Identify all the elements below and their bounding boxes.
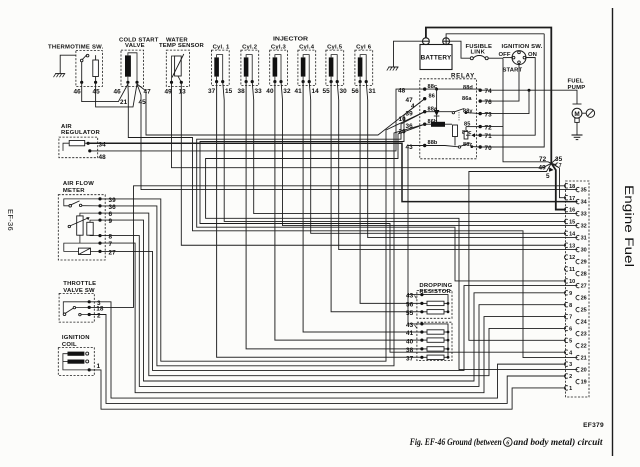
svg-text:2: 2 [569, 374, 572, 380]
svg-text:55: 55 [323, 88, 331, 95]
svg-text:28: 28 [581, 272, 587, 278]
svg-text:49: 49 [165, 88, 173, 95]
svg-text:AIR FLOW: AIR FLOW [63, 181, 94, 187]
svg-text:41: 41 [295, 88, 303, 95]
svg-text:45: 45 [139, 99, 147, 106]
svg-text:14: 14 [569, 231, 576, 237]
svg-text:43: 43 [406, 322, 414, 329]
svg-text:18: 18 [96, 306, 104, 313]
svg-text:37: 37 [406, 356, 414, 363]
svg-text:76: 76 [485, 99, 493, 106]
svg-text:3: 3 [569, 362, 572, 368]
svg-text:5: 5 [569, 338, 572, 344]
svg-text:88d: 88d [463, 85, 473, 91]
svg-text:IGNITION SW.: IGNITION SW. [502, 44, 543, 50]
svg-text:33: 33 [255, 88, 263, 95]
svg-text:30: 30 [340, 88, 348, 95]
svg-text:7: 7 [569, 315, 572, 321]
svg-text:15: 15 [569, 220, 575, 226]
svg-text:1: 1 [97, 363, 101, 370]
svg-text:31: 31 [369, 88, 377, 95]
svg-text:Fig. EF-46 Ground (between: Fig. EF-46 Ground (between [409, 437, 502, 448]
svg-text:1: 1 [569, 386, 572, 392]
svg-text:31: 31 [581, 236, 587, 242]
svg-text:LINK: LINK [471, 50, 486, 56]
svg-text:12: 12 [569, 255, 575, 261]
svg-text:33: 33 [581, 212, 587, 218]
svg-text:6: 6 [569, 327, 572, 333]
svg-text:M: M [574, 111, 579, 118]
svg-text:32: 32 [581, 224, 587, 230]
svg-text:TEMP SENSOR: TEMP SENSOR [159, 43, 205, 49]
svg-text:13: 13 [179, 88, 187, 95]
svg-text:Cyl 6: Cyl 6 [356, 44, 372, 50]
svg-text:71: 71 [485, 133, 493, 140]
svg-text:10: 10 [569, 279, 575, 285]
svg-text:RESISTOR: RESISTOR [419, 289, 451, 295]
svg-text:5: 5 [546, 173, 550, 180]
svg-text:9: 9 [109, 218, 113, 225]
svg-text:48: 48 [99, 154, 107, 161]
svg-text:43: 43 [406, 293, 414, 300]
svg-text:OFF: OFF [499, 52, 511, 58]
svg-text:8: 8 [569, 303, 572, 309]
svg-text:EF-36: EF-36 [6, 209, 15, 231]
svg-text:73: 73 [485, 111, 493, 118]
svg-text:49: 49 [539, 165, 547, 172]
svg-text:36: 36 [109, 204, 117, 211]
svg-text:86a: 86a [462, 96, 472, 102]
svg-text:METER: METER [63, 188, 85, 194]
svg-text:46: 46 [74, 88, 82, 95]
svg-text:Cyl. 1: Cyl. 1 [213, 44, 230, 50]
svg-text:Engine Fuel: Engine Fuel [622, 185, 634, 267]
svg-text:20: 20 [581, 368, 587, 374]
svg-text:35: 35 [581, 188, 587, 194]
svg-text:EF379: EF379 [583, 422, 604, 429]
svg-text:17: 17 [569, 196, 575, 202]
svg-text:39: 39 [109, 197, 117, 204]
svg-text:47: 47 [144, 88, 152, 95]
svg-text:6: 6 [109, 211, 113, 218]
svg-text:and body metal) circuit: and body metal) circuit [514, 437, 603, 448]
svg-text:48: 48 [398, 88, 406, 95]
svg-text:29: 29 [581, 260, 587, 266]
svg-text:27: 27 [581, 284, 587, 290]
svg-text:27: 27 [109, 249, 117, 256]
svg-text:8: 8 [109, 234, 113, 241]
svg-text:74: 74 [485, 88, 493, 95]
svg-text:72: 72 [539, 156, 547, 163]
svg-text:16: 16 [569, 208, 575, 214]
svg-text:25: 25 [581, 308, 587, 314]
svg-text:INJECTOR: INJECTOR [273, 37, 309, 43]
svg-text:45: 45 [93, 88, 101, 95]
svg-text:88y: 88y [463, 108, 473, 114]
svg-text:THROTTLE: THROTTLE [63, 281, 96, 287]
svg-text:2: 2 [97, 313, 101, 320]
svg-text:15: 15 [225, 88, 233, 95]
svg-text:23: 23 [581, 332, 587, 338]
svg-text:PUMP: PUMP [568, 85, 586, 91]
svg-text:VALVE: VALVE [125, 43, 145, 49]
svg-text:55: 55 [406, 310, 414, 317]
svg-text:FUEL: FUEL [568, 78, 584, 84]
svg-text:14: 14 [312, 88, 320, 95]
svg-text:38: 38 [238, 88, 246, 95]
svg-text:BATTERY: BATTERY [421, 55, 452, 62]
svg-text:21: 21 [581, 356, 587, 362]
svg-text:34: 34 [581, 200, 588, 206]
svg-text:70: 70 [485, 145, 493, 152]
svg-text:21: 21 [120, 99, 128, 106]
svg-text:Cyl.3: Cyl.3 [271, 44, 287, 50]
svg-text:22: 22 [581, 344, 587, 350]
svg-text:24: 24 [581, 320, 588, 326]
svg-text:7: 7 [109, 241, 113, 248]
svg-text:46: 46 [114, 88, 122, 95]
svg-text:RELAY: RELAY [451, 72, 475, 79]
svg-text:41: 41 [406, 330, 414, 337]
svg-text:REGULATOR: REGULATOR [61, 130, 101, 136]
svg-text:Cyl.2: Cyl.2 [242, 44, 258, 50]
svg-text:11: 11 [569, 267, 575, 273]
svg-text:ON: ON [528, 52, 537, 58]
svg-text:DROPPING: DROPPING [419, 283, 452, 289]
svg-text:19: 19 [581, 380, 587, 386]
svg-text:START: START [503, 68, 523, 74]
svg-text:Cyl.5: Cyl.5 [327, 44, 343, 50]
svg-text:18: 18 [569, 184, 575, 190]
svg-text:THERMOTIME SW.: THERMOTIME SW. [48, 45, 104, 51]
svg-text:IGNITION: IGNITION [62, 335, 90, 341]
svg-text:56: 56 [406, 302, 414, 309]
svg-text:26: 26 [581, 296, 587, 302]
svg-text:9: 9 [569, 291, 572, 297]
svg-text:40: 40 [266, 88, 274, 95]
svg-text:86: 86 [429, 93, 435, 99]
svg-text:32: 32 [283, 88, 291, 95]
svg-text:38: 38 [406, 347, 414, 354]
svg-text:13: 13 [569, 243, 575, 249]
svg-text:40: 40 [406, 338, 414, 345]
svg-text:37: 37 [208, 88, 216, 95]
svg-text:56: 56 [352, 88, 360, 95]
svg-text:30: 30 [581, 248, 587, 254]
svg-text:Cyl.4: Cyl.4 [299, 44, 315, 50]
svg-text:72: 72 [485, 124, 493, 131]
